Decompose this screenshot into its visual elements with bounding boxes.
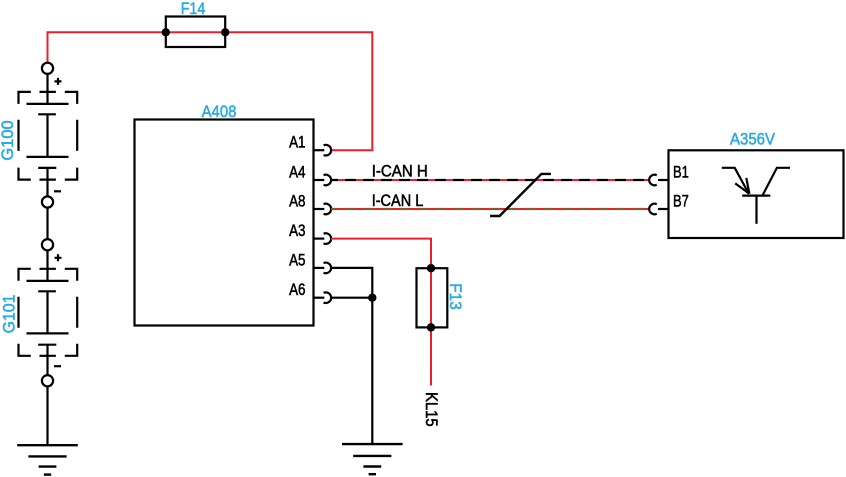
pin A5 <box>289 250 331 273</box>
junction dot F13 bottom <box>427 323 435 331</box>
svg-text:A5: A5 <box>289 250 305 269</box>
ground right <box>342 444 403 474</box>
wire I-CAN L (red with brown dashes) <box>331 208 649 210</box>
cell plate long <box>27 332 69 334</box>
ECU box A356V <box>669 150 844 238</box>
svg-text:KL15: KL15 <box>422 392 441 427</box>
cell plate long <box>27 280 69 282</box>
svg-text:A1: A1 <box>289 133 305 152</box>
wire <box>46 345 48 376</box>
wire G101 minus to ground <box>46 386 48 445</box>
plus sign <box>55 78 62 85</box>
terminal circle G100 minus <box>42 196 53 207</box>
svg-text:I-CAN L: I-CAN L <box>372 191 424 210</box>
svg-text:A356V: A356V <box>730 130 776 149</box>
svg-text:F13: F13 <box>446 283 465 309</box>
pin A3 <box>289 221 331 244</box>
junction dot F14 right <box>221 28 229 36</box>
wire <box>46 291 48 333</box>
svg-text:G101: G101 <box>0 295 19 334</box>
twisted pair symbol <box>490 174 551 216</box>
svg-text:A408: A408 <box>202 102 237 121</box>
wire <box>46 74 48 104</box>
junction dot A6 <box>368 294 376 302</box>
cell plate long <box>27 156 69 158</box>
terminal circle G101 minus <box>42 375 53 386</box>
plus sign <box>55 254 62 261</box>
wire battery G100 plus to fuse F14 and down to pin A1 (red) <box>48 32 373 150</box>
minus sign <box>54 365 61 367</box>
pin A6 <box>289 280 331 303</box>
pin A8 <box>289 192 331 215</box>
transistor symbol inside A356V <box>722 168 790 224</box>
wire <box>46 250 48 281</box>
wire pin A5 to ground <box>331 268 372 444</box>
cell plate short <box>38 167 56 169</box>
fuse F14 <box>166 17 225 48</box>
svg-text:I-CAN H: I-CAN H <box>372 161 428 180</box>
cell plate short <box>38 344 56 346</box>
battery G101 <box>19 239 78 386</box>
dashed outline box G100 <box>19 92 78 180</box>
ground left <box>17 445 78 474</box>
wire I-CAN H (red with black dashes) <box>331 179 649 181</box>
minus sign <box>54 190 61 192</box>
fuse F13 <box>417 268 448 327</box>
wire <box>46 114 48 157</box>
svg-text:A6: A6 <box>289 280 305 299</box>
svg-text:A3: A3 <box>289 221 305 240</box>
terminal circle G101 plus <box>42 239 53 250</box>
svg-text:B1: B1 <box>673 163 689 182</box>
pin B7 <box>649 192 689 215</box>
cell plate short <box>38 113 56 115</box>
cell plate long <box>27 103 69 105</box>
svg-text:F14: F14 <box>181 0 206 18</box>
dashed outline box G101 <box>19 269 78 356</box>
junction dot F14 left <box>162 28 170 36</box>
svg-text:G100: G100 <box>0 120 17 160</box>
wire pin A6 to junction <box>331 297 372 299</box>
svg-text:A8: A8 <box>289 192 305 211</box>
wire pin A3 to fuse F13 to KL15 (red) <box>331 239 431 386</box>
pin A4 <box>289 163 331 186</box>
terminal circle G100 plus <box>42 63 53 74</box>
junction dot F13 top <box>427 264 435 272</box>
cell plate short <box>38 290 56 292</box>
pin A1 <box>289 133 331 156</box>
svg-text:B7: B7 <box>673 192 689 211</box>
wire <box>46 168 48 197</box>
pin B1 <box>649 163 689 186</box>
battery G100 <box>19 63 78 208</box>
wire G100 minus to G101 plus <box>46 208 48 240</box>
svg-text:A4: A4 <box>289 163 305 182</box>
ECU box A408 <box>135 120 314 326</box>
